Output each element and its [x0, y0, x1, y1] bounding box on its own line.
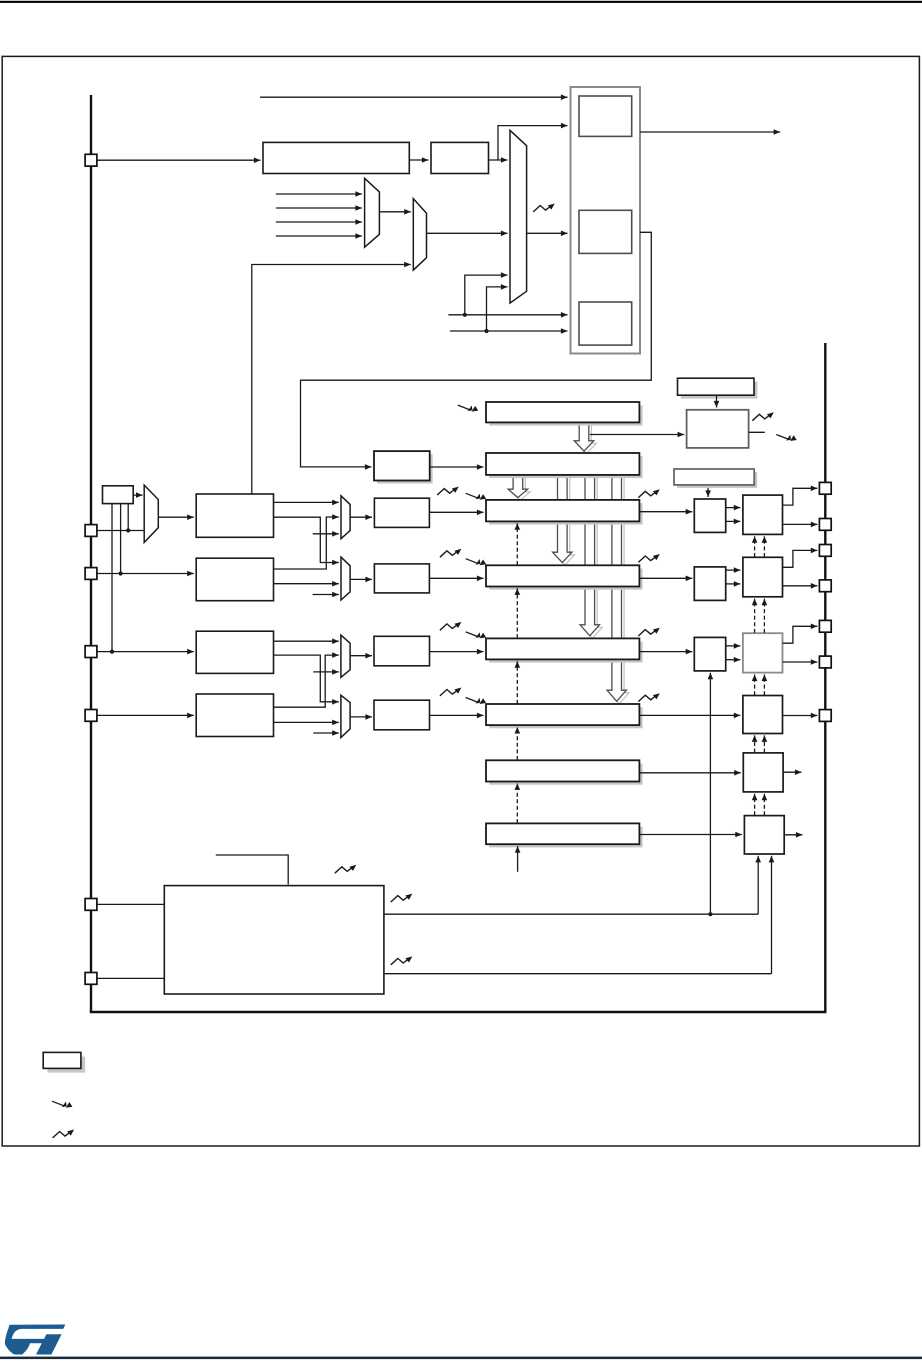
pin TIMx_CH1N output — [819, 519, 831, 531]
box capture/compare 5 register — [486, 760, 643, 784]
page header rule — [0, 1, 922, 3]
box output control 4 — [743, 696, 783, 734]
wire TRC to IC1 mux — [313, 531, 339, 537]
wire OC1N to pin — [783, 522, 818, 528]
wire OC2 elbow to pin — [783, 548, 818, 568]
box CNT counter — [687, 410, 749, 448]
box output control 1 DTG — [743, 495, 783, 534]
wire TI4FP3 cross-up — [274, 652, 339, 707]
dashed link OC4 to OC3 b — [762, 674, 768, 695]
box TI4 input filter & edge detector — [196, 694, 273, 737]
wire TI1FP1 to IC1 mux — [274, 500, 339, 506]
box capture/compare 6 register — [486, 823, 643, 847]
wire IC1PS to capture/compare 1 — [429, 510, 483, 516]
wire into CC6 from below — [515, 846, 521, 872]
wire CC5 to output control 5 — [639, 770, 740, 776]
mux trigger input TRGI selector — [413, 199, 426, 271]
wire OC5 stub — [783, 769, 801, 775]
wire internal clock CK_INT — [260, 94, 568, 100]
wire IC4 to prescaler — [350, 714, 372, 720]
mux slave-mode controller input selector — [510, 130, 527, 303]
wire OC1 elbow to pin — [783, 486, 818, 506]
dashed link OC5 to OC4 a — [752, 735, 758, 752]
mux TI1 selection — [144, 485, 158, 542]
wire ITR2 — [276, 219, 362, 225]
wire ITR0 — [276, 191, 362, 197]
wire CK_CNT prescaler output — [430, 464, 484, 470]
box capture/compare 2 register — [486, 565, 643, 589]
box output mode controller 1 — [694, 499, 725, 532]
pin TIMx_CH4 output — [819, 710, 831, 722]
interrupt symbol CC4 right — [638, 693, 660, 701]
wire TI4FP4 to IC4 mux — [274, 720, 339, 726]
interrupt symbol CC2 right — [638, 554, 660, 562]
box capture/compare 4 register — [486, 704, 643, 728]
box IC2 prescaler — [374, 564, 429, 593]
wire IC2 to prescaler — [350, 577, 372, 583]
interrupt symbol TGI — [533, 204, 555, 212]
box TI1 input filter & edge detector — [196, 494, 273, 537]
wire XOR input from CH2 — [120, 504, 122, 574]
wire OC3N to pin — [783, 659, 818, 665]
wire OC3REF lower — [726, 657, 741, 663]
wire TIMx_CH2 input — [97, 571, 194, 577]
box repetition counter register — [486, 453, 643, 478]
wire BI2 riser to output control 6 — [769, 856, 775, 974]
ST logo — [5, 1325, 65, 1355]
wire TI3FP4 cross-down — [274, 655, 339, 705]
box TI3 input filter & edge detector — [196, 631, 273, 673]
pin TIMx_CH1 — [85, 525, 97, 537]
figure frame — [2, 56, 919, 1146]
wire TIMx_BKIN input — [97, 903, 164, 905]
box trigger controller — [579, 96, 632, 136]
box break request BRK circuit — [164, 886, 384, 994]
wire OC1REF lower — [726, 519, 741, 525]
box IC4 prescaler — [374, 700, 430, 730]
pin TIMx_CH2N output — [819, 580, 831, 592]
wire TI1FP1 to controller — [448, 312, 567, 318]
dashed link OC2 to OC1 a — [752, 536, 758, 557]
wire ETR to input filter — [409, 157, 428, 163]
mux IC1 selection — [341, 496, 350, 539]
dashed link OC6 to OC5 b — [762, 794, 768, 816]
wire TRC to IC3 mux — [313, 669, 339, 675]
dashed link OC3 to OC2 b — [762, 599, 768, 633]
pin TIMx_CH4 — [85, 710, 97, 722]
hollow update-event arrow U to capture/compare 2 — [553, 475, 575, 566]
wire BI riser to output control 6 — [755, 856, 761, 914]
wire TIMx_ETR input — [97, 157, 261, 163]
event symbol CC2 — [466, 559, 486, 566]
wire TRGI to trigger/slave controller — [527, 231, 568, 237]
box output control 3 DTG — [743, 633, 783, 672]
pin TIMx_CH1 output — [819, 482, 831, 494]
wire TIMx_CH1 input — [97, 528, 144, 653]
box trigger & slave mode controller group — [571, 87, 641, 354]
interrupt symbol CC1 right — [638, 489, 660, 497]
wire OC3 elbow to pin — [783, 624, 818, 644]
wire XOR input from CH1 — [127, 504, 129, 531]
wire XOR input from CH3 — [111, 504, 113, 652]
interrupt symbol CC4 left — [440, 688, 462, 696]
wire TRC to IC2 mux — [313, 592, 339, 598]
dashed link OC4 to OC3 a — [752, 674, 758, 695]
wire TRGI to slave-mode mux — [427, 231, 508, 237]
wire ETRF branch to trigger controller — [498, 123, 568, 160]
wire OC6 stub — [784, 832, 802, 838]
wire ITR1 — [276, 205, 362, 211]
wire control to CNT counter — [714, 395, 720, 407]
wire TI2FP1 cross-up — [274, 514, 339, 569]
interrupt symbol CC3 left — [440, 622, 462, 630]
wire U to CNT counter — [590, 432, 684, 438]
box capture/compare 1 register — [486, 500, 643, 525]
box output mode controller 2 — [694, 567, 725, 601]
interrupt symbol CC2 left — [440, 549, 462, 557]
wire reset/enable/count to time-base — [301, 232, 652, 469]
interrupt symbol break — [335, 865, 357, 873]
wire IC4PS to capture/compare 4 — [430, 713, 484, 719]
pin TIMx_ETR — [85, 154, 97, 166]
wire TRC to IC4 mux — [313, 730, 339, 736]
wire TRGO to other timers — [640, 129, 780, 135]
wire CC4 to output control — [639, 713, 740, 719]
dashed compare link CC3 to CC2 — [515, 588, 521, 638]
dashed compare link CC6 to CC5 — [515, 783, 521, 823]
dashed link OC6 to OC5 a — [752, 794, 758, 816]
pin TIMx_CH2 — [85, 568, 97, 580]
box slave mode controller — [579, 210, 632, 253]
box IC3 prescaler — [374, 636, 430, 666]
wire CC6 to output control 6 — [639, 832, 742, 838]
wire CNT output stub — [749, 431, 765, 433]
interrupt symbol CNT overflow — [752, 412, 774, 420]
wire TI1F_ED to trigger mux — [252, 262, 411, 494]
wire TI2FP2 riser to slave mux — [487, 284, 508, 331]
wire OC2REF lower — [726, 581, 741, 587]
pin TIMx_CH2 output — [819, 545, 831, 557]
box ETR input filter — [431, 142, 489, 173]
pin TIMx_BKIN2 — [85, 973, 97, 985]
wire BI to output stage — [384, 912, 758, 916]
wire ITR3 — [276, 233, 362, 239]
wire CC1 to output mode controller — [639, 509, 692, 515]
wire OC3REF upper — [726, 643, 741, 649]
wire CC2 to output mode controller — [639, 576, 692, 582]
box IC1 prescaler — [374, 498, 429, 527]
wire XOR output — [133, 492, 142, 498]
interrupt symbol CC1 left — [437, 487, 459, 495]
legend interrupt symbol — [53, 1130, 75, 1138]
wire clock failure event input — [216, 855, 288, 885]
wire IC3PS to capture/compare 3 — [430, 649, 484, 655]
box output control 5 — [743, 753, 783, 792]
mux IC3 selection — [341, 635, 350, 677]
dashed compare link CC4 to CC3 — [515, 661, 521, 704]
wire IC3 to prescaler — [350, 653, 372, 659]
box XOR ti1 selection — [103, 486, 134, 504]
box capture/compare preload control — [674, 469, 757, 488]
dashed compare link CC5 to CC4 — [515, 727, 521, 760]
box encoder interface — [579, 302, 632, 345]
box ETR polarity selection & edge detector & prescaler — [263, 142, 409, 173]
mux ITR selector — [365, 178, 380, 247]
pin TIMx_CH3 output — [819, 620, 831, 632]
hollow update-event arrow U to capture/compare 4 — [607, 475, 629, 704]
wire TI1FP1 riser to slave mux — [465, 272, 508, 315]
wire TI1FP2 cross-down — [274, 517, 339, 565]
wire OC4 to pin — [783, 713, 818, 719]
hollow update-event arrow U to capture/compare 1 — [508, 475, 530, 501]
box auto-reload register — [486, 402, 643, 426]
box PSC prescaler — [374, 451, 433, 483]
dashed link OC5 to OC4 b — [762, 735, 768, 752]
wire OC2REF upper — [726, 567, 741, 573]
footer rule — [0, 1357, 922, 1360]
dashed link OC3 to OC2 a — [752, 599, 758, 633]
box output mode controller 3 — [694, 637, 725, 671]
wire UEV to output mode controller 1 — [705, 485, 711, 497]
hollow update-event arrow U: auto-reload to repetition counter — [574, 423, 596, 454]
pin TIMx_CH3 — [85, 646, 97, 658]
legend event symbol — [52, 1101, 72, 1108]
box output control 6 — [744, 816, 784, 854]
wire BI2 to output stage — [384, 973, 772, 975]
event symbol auto-reload — [458, 405, 478, 412]
hollow update-event arrow U to capture/compare 3 — [580, 475, 602, 639]
interrupt symbol BI — [391, 894, 413, 902]
right output bus rail — [824, 343, 826, 1012]
event symbol CC1 — [466, 493, 486, 500]
wire TIMx_CH4 input — [97, 713, 194, 719]
bottom bus rail — [90, 1011, 827, 1013]
mux IC4 selection — [341, 695, 350, 737]
wire IC1 to prescaler — [350, 514, 372, 520]
legend register box sample — [43, 1052, 85, 1072]
event symbol CNT — [776, 435, 796, 442]
event symbol CC3 — [466, 632, 486, 639]
mux IC2 selection — [341, 557, 350, 600]
wire TI2FP2 to controller — [450, 328, 568, 334]
box TI2 input filter & edge detector — [196, 558, 273, 601]
dashed compare link CC2 to CC1 — [515, 523, 521, 565]
box output control 2 DTG — [743, 557, 783, 597]
wire ETRF to slave-mode mux — [489, 157, 508, 163]
wire ITR to trigger mux — [379, 209, 410, 215]
box capture/compare 3 register — [486, 638, 643, 662]
wire OC2N to pin — [783, 583, 818, 589]
interrupt symbol CC3 right — [638, 628, 660, 636]
wire TIMx_CH3 input — [97, 649, 194, 655]
pin TIMx_BKIN — [85, 899, 97, 911]
wire TIMx_BKIN2 input — [97, 977, 164, 979]
pin TIMx_CH3N output — [819, 656, 831, 668]
wire OC1REF upper — [726, 505, 741, 511]
dashed link OC2 to OC1 b — [762, 536, 768, 557]
interrupt symbol BI2 — [391, 956, 413, 964]
wire TI1 to input filter — [158, 514, 194, 520]
wire TI3FP3 to IC3 mux — [274, 638, 339, 644]
event symbol CC4 — [466, 698, 486, 705]
box stop/clear/up-down control — [678, 378, 758, 398]
wire TRC riser to output mode controller 3 — [708, 673, 714, 915]
wire CC3 to output mode controller — [639, 649, 692, 655]
wire TI2FP2 to IC2 mux — [274, 581, 339, 587]
left APB bus rail — [90, 95, 92, 1012]
wire IC2PS to capture/compare 2 — [429, 576, 483, 582]
